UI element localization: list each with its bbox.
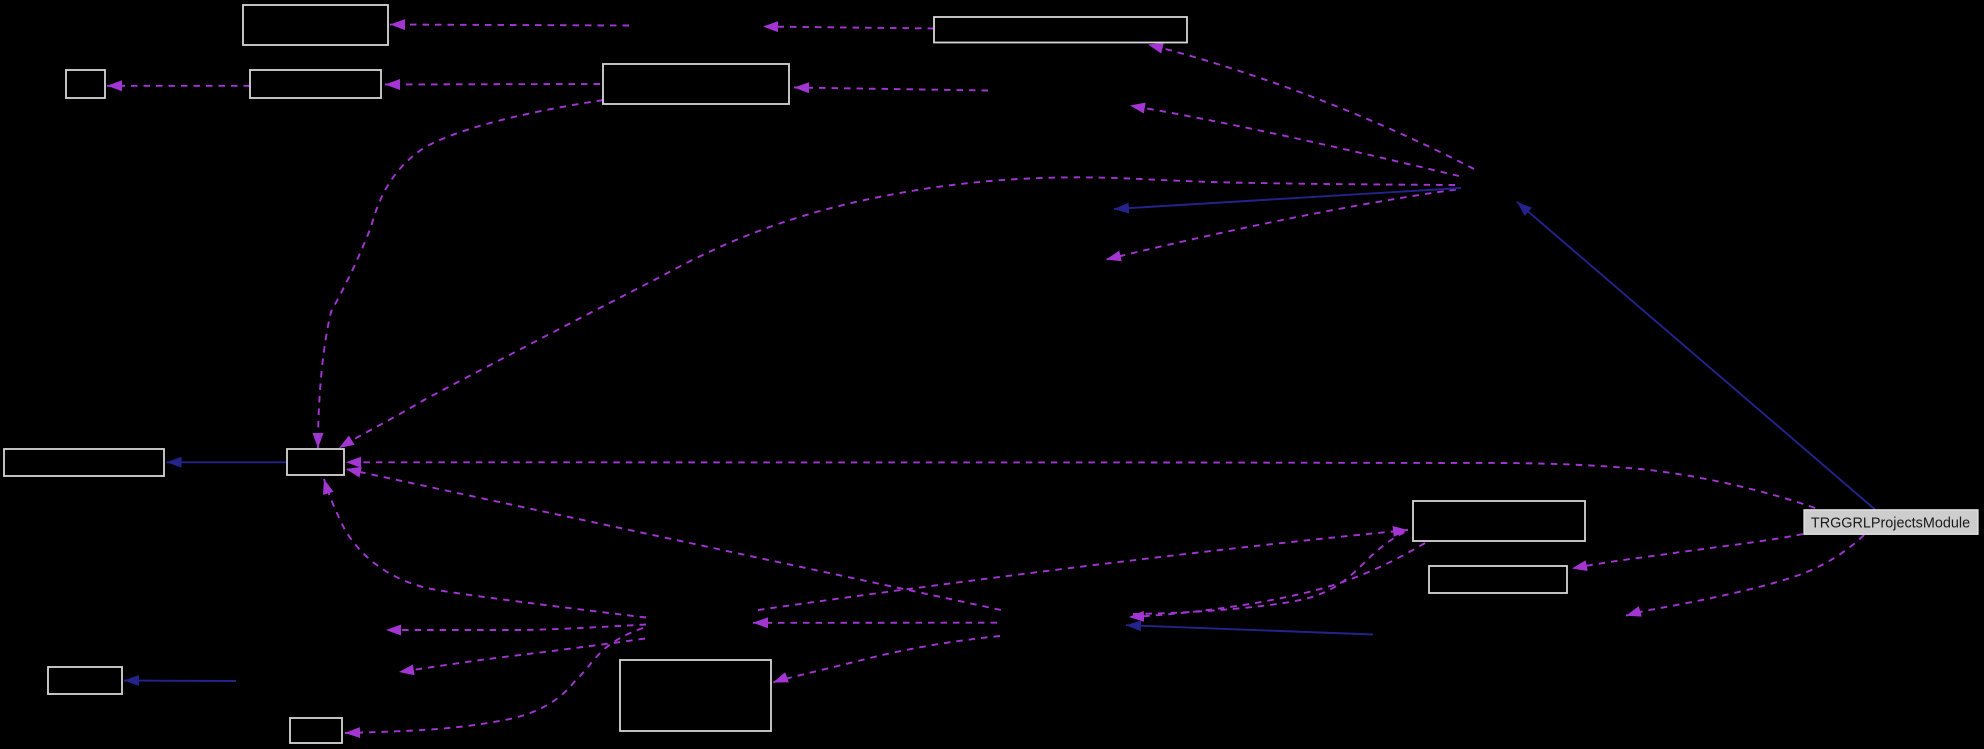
svg-text:TRGGRLProjectsModule: TRGGRLProjectsModule xyxy=(1811,516,1970,532)
edge S1 to N6 (dashed) xyxy=(399,639,645,673)
node TRGGRLProjectsModule (highlighted) xyxy=(1804,510,1978,535)
edge N10 to box10 (blue solid) xyxy=(124,680,236,683)
edge box3 to box2 (dashed) xyxy=(107,85,250,87)
edge S1 to box11 (dashed) xyxy=(345,628,643,733)
node box3 xyxy=(250,70,381,98)
edge H1 to N2 (dashed) xyxy=(1130,106,1459,177)
edge S1 to box8 (dashed) xyxy=(758,530,1408,610)
node box6 xyxy=(4,449,164,476)
edge H1 to N4 (blue solid) xyxy=(1114,188,1461,209)
node box4 xyxy=(603,64,789,104)
edge box4 to box7 curve (dashed) xyxy=(318,100,603,448)
edge N1 to box1 (dashed) xyxy=(390,25,629,26)
edge box8 to S2 (dashed) xyxy=(1129,543,1425,617)
edge N2 to box4 (dashed) xyxy=(794,88,988,91)
edge S2 to S1 horizontal (dashed) xyxy=(753,622,997,624)
edge H1 to N3 (dashed) xyxy=(1106,190,1456,260)
edge box5 to N1 (dashed) xyxy=(763,27,934,29)
edge S2 to box8 (dashed) xyxy=(1133,531,1407,614)
node box8 xyxy=(1413,501,1585,541)
edge box7 to box6 (blue solid) xyxy=(167,461,288,463)
edge S1 to box7 bottom curve (dashed) xyxy=(324,479,646,618)
node box9 xyxy=(1429,566,1567,593)
edge N8 to S2 (blue solid) xyxy=(1126,625,1373,634)
node box12 xyxy=(620,660,771,731)
edge TRGGRL to box7 long horizontal (dashed) xyxy=(346,462,1815,508)
edge TRGGRL to H1 (blue solid) xyxy=(1517,202,1875,510)
node box7 xyxy=(287,449,344,475)
edge S1 to N5 (dashed) xyxy=(386,625,646,631)
edge box4 to box3 (dashed) xyxy=(385,83,600,86)
node box1 xyxy=(243,5,388,45)
edge H1 to box7 long sweep (dashed) xyxy=(339,177,1455,448)
edge S2 to box7 diagonal (dashed) xyxy=(346,469,1001,610)
edge H1 to box5 (dashed) xyxy=(1148,45,1474,170)
edge TRGGRL to N9 (dashed) xyxy=(1626,535,1864,616)
edge TRGGRL to box9 (dashed) xyxy=(1572,534,1803,569)
node box11 xyxy=(290,718,342,743)
edge S2 to box12 (dashed) xyxy=(773,636,1000,683)
node box2 xyxy=(66,70,105,98)
node box5 xyxy=(934,17,1187,43)
node box10 xyxy=(48,667,122,694)
